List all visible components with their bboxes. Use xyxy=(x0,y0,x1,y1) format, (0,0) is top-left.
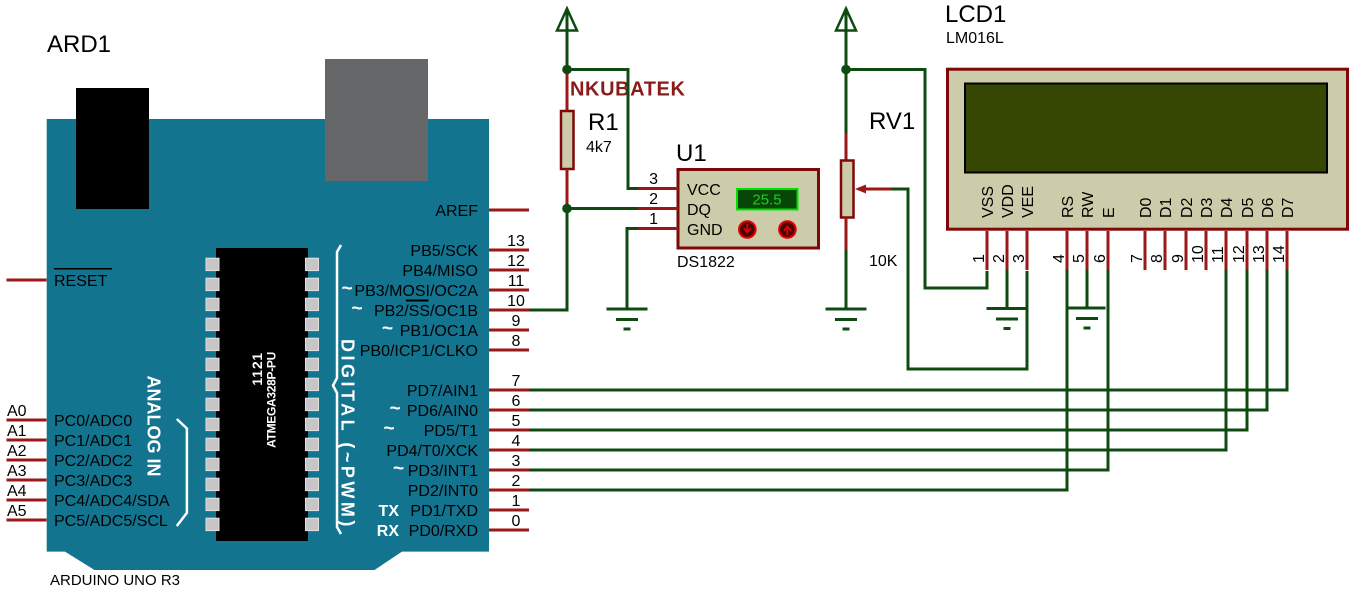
svg-text:7: 7 xyxy=(512,373,521,390)
pin PD3/INT1 stub xyxy=(489,469,529,472)
svg-text:PD5/T1: PD5/T1 xyxy=(424,423,478,440)
svg-text:ANALOG IN: ANALOG IN xyxy=(144,376,164,477)
analog group brace xyxy=(177,419,187,526)
wire LCD D4 to arduino pin 4 xyxy=(529,270,1226,450)
svg-text:D1: D1 xyxy=(1158,197,1175,218)
svg-text:12: 12 xyxy=(1231,245,1248,263)
svg-text:6: 6 xyxy=(512,393,521,410)
svg-text:RV1: RV1 xyxy=(869,108,915,135)
pin PB1/OC1A stub xyxy=(489,329,529,332)
IC pins right column xyxy=(306,258,319,530)
svg-text:PB3/MOSI/OC2A: PB3/MOSI/OC2A xyxy=(354,283,478,300)
svg-text:A4: A4 xyxy=(7,483,27,500)
resistor R1 xyxy=(561,70,574,209)
IC ATMEGA328P body xyxy=(216,248,308,541)
wire junction node RV1 top xyxy=(841,65,851,75)
LCD pin 5 (RW) stub xyxy=(1086,231,1089,270)
svg-text:PB2/SS/OC1B: PB2/SS/OC1B xyxy=(374,303,478,320)
U1 pin 1 GND stub xyxy=(638,227,678,230)
svg-text:D7: D7 xyxy=(1280,197,1297,218)
svg-text:PC4/ADC4/SDA: PC4/ADC4/SDA xyxy=(54,493,170,510)
wire LCD D6 to arduino pin 6 xyxy=(529,270,1267,410)
svg-text:TX: TX xyxy=(379,503,400,520)
wire LCD VDD to ground xyxy=(1006,270,1009,308)
power +5V arrow (R1 net) xyxy=(557,9,577,70)
LCD pin 6 (E) stub xyxy=(1107,231,1110,270)
svg-text:LM016L: LM016L xyxy=(946,30,1004,47)
svg-text:~: ~ xyxy=(393,459,404,480)
svg-text:8: 8 xyxy=(1149,254,1166,263)
svg-text:3: 3 xyxy=(1011,254,1028,263)
svg-text:VSS: VSS xyxy=(980,186,997,218)
svg-text:ARD1: ARD1 xyxy=(47,31,111,58)
svg-text:DS1822: DS1822 xyxy=(677,254,735,271)
svg-text:D0: D0 xyxy=(1138,197,1155,218)
wire +5V to U1 VCC xyxy=(567,70,638,189)
wire LCD E to arduino pin 3 xyxy=(529,270,1108,470)
svg-text:U1: U1 xyxy=(676,140,707,167)
svg-text:PC0/ADC0: PC0/ADC0 xyxy=(54,413,132,430)
svg-text:14: 14 xyxy=(1271,245,1288,263)
svg-text:10K: 10K xyxy=(869,253,898,270)
pin PD2/INT0 stub xyxy=(489,489,529,492)
wire junction node at R1 top xyxy=(562,65,572,75)
svg-text:VDD: VDD xyxy=(1000,184,1017,218)
LCD pin 2 (VDD) stub xyxy=(1006,231,1009,270)
svg-text:12: 12 xyxy=(507,253,525,270)
svg-text:RS: RS xyxy=(1060,196,1077,218)
svg-text:DIGITAL (~PWM): DIGITAL (~PWM) xyxy=(338,339,358,530)
temperature sensor U1 DS1822 body xyxy=(678,170,819,249)
svg-text:D4: D4 xyxy=(1219,197,1236,218)
svg-text:A0: A0 xyxy=(7,403,27,420)
svg-text:DQ: DQ xyxy=(687,202,711,219)
svg-text:6: 6 xyxy=(1092,254,1109,263)
pin PD7/AIN1 stub xyxy=(489,389,529,392)
pin PB3/MOSI/OC2A stub xyxy=(489,289,529,292)
svg-text:~: ~ xyxy=(384,419,395,440)
svg-text:5: 5 xyxy=(512,413,521,430)
ground under LCD VDD xyxy=(987,309,1028,329)
svg-text:PB0/ICP1/CLKO: PB0/ICP1/CLKO xyxy=(360,343,478,360)
svg-text:1: 1 xyxy=(971,254,988,263)
pin PB5/SCK stub xyxy=(489,249,529,252)
svg-text:13: 13 xyxy=(507,233,525,250)
svg-text:D5: D5 xyxy=(1240,197,1257,218)
svg-text:ATMEGA328P-PU: ATMEGA328P-PU xyxy=(265,352,279,448)
svg-text:ARDUINO UNO R3: ARDUINO UNO R3 xyxy=(50,572,180,589)
svg-text:13: 13 xyxy=(1251,245,1268,263)
svg-text:1: 1 xyxy=(512,493,521,510)
pin PD5/T1 stub xyxy=(489,429,529,432)
pin PB2/SS/OC1B stub xyxy=(489,309,529,312)
IC pins left column xyxy=(206,258,219,530)
LCD pin 8 (D1) stub xyxy=(1164,231,1167,270)
svg-text:A3: A3 xyxy=(7,463,27,480)
pin A3 (PC3/ADC3) stub xyxy=(7,479,47,482)
overline over SS of PB2 xyxy=(406,300,429,302)
svg-text:VCC: VCC xyxy=(687,182,721,199)
wire LCD D5 to arduino pin 5 xyxy=(529,270,1247,430)
U1 pin 3 VCC stub xyxy=(638,187,678,190)
LCD1 LM016L body xyxy=(948,69,1348,229)
svg-text:A2: A2 xyxy=(7,443,27,460)
svg-text:RX: RX xyxy=(377,523,400,540)
pin PB0/ICP1/CLKO stub xyxy=(489,349,529,352)
svg-text:PB5/SCK: PB5/SCK xyxy=(410,243,478,260)
svg-text:3: 3 xyxy=(512,453,521,470)
ground under RV1 xyxy=(826,309,867,329)
pin PD1/TXD stub xyxy=(489,509,529,512)
RV1 wiper arrow xyxy=(858,188,891,191)
svg-text:PC2/ADC2: PC2/ADC2 xyxy=(54,453,132,470)
svg-text:7: 7 xyxy=(1129,254,1146,263)
svg-text:4: 4 xyxy=(1051,254,1068,263)
svg-text:PD0/RXD: PD0/RXD xyxy=(409,523,478,540)
svg-text:PD6/AIN0: PD6/AIN0 xyxy=(407,403,478,420)
svg-text:~: ~ xyxy=(342,279,353,300)
svg-text:D3: D3 xyxy=(1199,197,1216,218)
svg-text:~: ~ xyxy=(382,319,393,340)
pin PD6/AIN0 stub xyxy=(489,409,529,412)
wire RV1 wiper to LCD VEE xyxy=(891,189,1027,369)
LCD pin 10 (D3) stub xyxy=(1205,231,1208,270)
svg-text:1: 1 xyxy=(649,211,658,228)
svg-text:9: 9 xyxy=(512,313,521,330)
LCD pin 9 (D2) stub xyxy=(1185,231,1188,270)
svg-text:PB4/MISO: PB4/MISO xyxy=(402,263,478,280)
pin A4 (PC4/ADC4/SDA) stub xyxy=(7,499,47,502)
wire LCD D7 to arduino pin 7 xyxy=(529,270,1287,390)
wire junction node at R1 bottom / DQ net xyxy=(562,204,572,214)
digital group brace xyxy=(333,245,341,534)
svg-text:25.5: 25.5 xyxy=(752,192,781,209)
svg-text:0: 0 xyxy=(512,513,521,530)
LCD pin 11 (D4) stub xyxy=(1225,231,1228,270)
LCD pin 3 (VEE) stub xyxy=(1026,231,1029,270)
svg-text:~: ~ xyxy=(390,399,401,420)
pin RESET stub xyxy=(7,279,47,282)
wire LCD RS to arduino pin 2 xyxy=(529,270,1067,490)
ARD1 power connector xyxy=(76,88,149,209)
pin PB4/MISO stub xyxy=(489,269,529,272)
svg-text:PC3/ADC3: PC3/ADC3 xyxy=(54,473,132,490)
svg-text:11: 11 xyxy=(508,273,525,290)
svg-text:LCD1: LCD1 xyxy=(945,1,1006,28)
U1 temperature display xyxy=(737,189,798,210)
svg-text:PC5/ADC5/SCL: PC5/ADC5/SCL xyxy=(54,513,168,530)
pin A2 (PC2/ADC2) stub xyxy=(7,459,47,462)
svg-text:PB1/OC1A: PB1/OC1A xyxy=(400,323,479,340)
svg-text:RW: RW xyxy=(1080,191,1097,218)
svg-text:PD7/AIN1: PD7/AIN1 xyxy=(407,383,478,400)
LCD pin 4 (RS) stub xyxy=(1066,231,1069,270)
svg-text:5: 5 xyxy=(1071,254,1088,263)
U1 up button xyxy=(779,221,796,238)
power +5V arrow (RV1 net) xyxy=(836,9,856,70)
svg-text:PC1/ADC1: PC1/ADC1 xyxy=(54,433,132,450)
svg-text:AREF: AREF xyxy=(435,203,478,220)
svg-text:8: 8 xyxy=(512,333,521,350)
pin A1 (PC1/ADC1) stub xyxy=(7,439,47,442)
arduino board ARD1 body xyxy=(47,119,489,570)
ground under LCD RW xyxy=(1069,308,1106,328)
svg-text:RESET: RESET xyxy=(54,273,108,290)
wire U1 GND down xyxy=(627,229,638,309)
U1 pin 2 DQ stub xyxy=(638,207,678,210)
ground under U1 xyxy=(607,309,648,329)
svg-text:PD1/TXD: PD1/TXD xyxy=(410,503,478,520)
pin PD0/RXD stub xyxy=(489,529,529,532)
U1 down button xyxy=(739,221,756,238)
wire +5V to LCD VSS xyxy=(846,70,987,289)
svg-text:A5: A5 xyxy=(7,503,27,520)
svg-text:4: 4 xyxy=(512,433,521,450)
svg-text:PD3/INT1: PD3/INT1 xyxy=(408,463,478,480)
svg-text:E: E xyxy=(1101,207,1118,218)
pin PD4/T0/XCK stub xyxy=(489,449,529,452)
svg-text:2: 2 xyxy=(991,254,1008,263)
svg-text:2: 2 xyxy=(512,473,521,490)
pin A0 (PC0/ADC0) stub xyxy=(7,419,47,422)
LCD pin 14 (D7) stub xyxy=(1286,231,1289,270)
svg-text:PD2/INT0: PD2/INT0 xyxy=(408,483,478,500)
LCD pin 12 (D5) stub xyxy=(1246,231,1249,270)
svg-text:D2: D2 xyxy=(1179,197,1196,218)
svg-text:~: ~ xyxy=(352,299,363,320)
ARD1 USB connector xyxy=(325,59,428,181)
svg-text:9: 9 xyxy=(1170,254,1187,263)
svg-text:VEE: VEE xyxy=(1020,186,1037,218)
LCD pin 1 (VSS) stub xyxy=(986,231,989,270)
svg-text:4k7: 4k7 xyxy=(586,139,612,156)
svg-text:3: 3 xyxy=(649,171,658,188)
svg-text:R1: R1 xyxy=(588,109,619,136)
LCD pin 7 (D0) stub xyxy=(1144,231,1147,270)
svg-text:PD4/T0/XCK: PD4/T0/XCK xyxy=(386,443,478,460)
wire DQ down to arduino pin 10 xyxy=(529,209,567,311)
LCD1 screen xyxy=(965,84,1327,173)
svg-text:GND: GND xyxy=(687,222,723,239)
wire DQ junction to U1 xyxy=(567,207,638,210)
svg-text:2: 2 xyxy=(649,191,658,208)
pin AREF stub xyxy=(489,209,529,212)
LCD pin 13 (D6) stub xyxy=(1266,231,1269,270)
potentiometer RV1 xyxy=(841,70,891,309)
svg-text:D6: D6 xyxy=(1260,197,1277,218)
svg-text:10: 10 xyxy=(1190,245,1207,263)
svg-text:1121: 1121 xyxy=(249,352,265,386)
wire LCD RW to ground xyxy=(1086,270,1089,307)
svg-text:A1: A1 xyxy=(7,423,27,440)
svg-text:10: 10 xyxy=(507,293,525,310)
pin A5 (PC5/ADC5/SCL) stub xyxy=(7,519,47,522)
svg-text:11: 11 xyxy=(1210,246,1227,263)
